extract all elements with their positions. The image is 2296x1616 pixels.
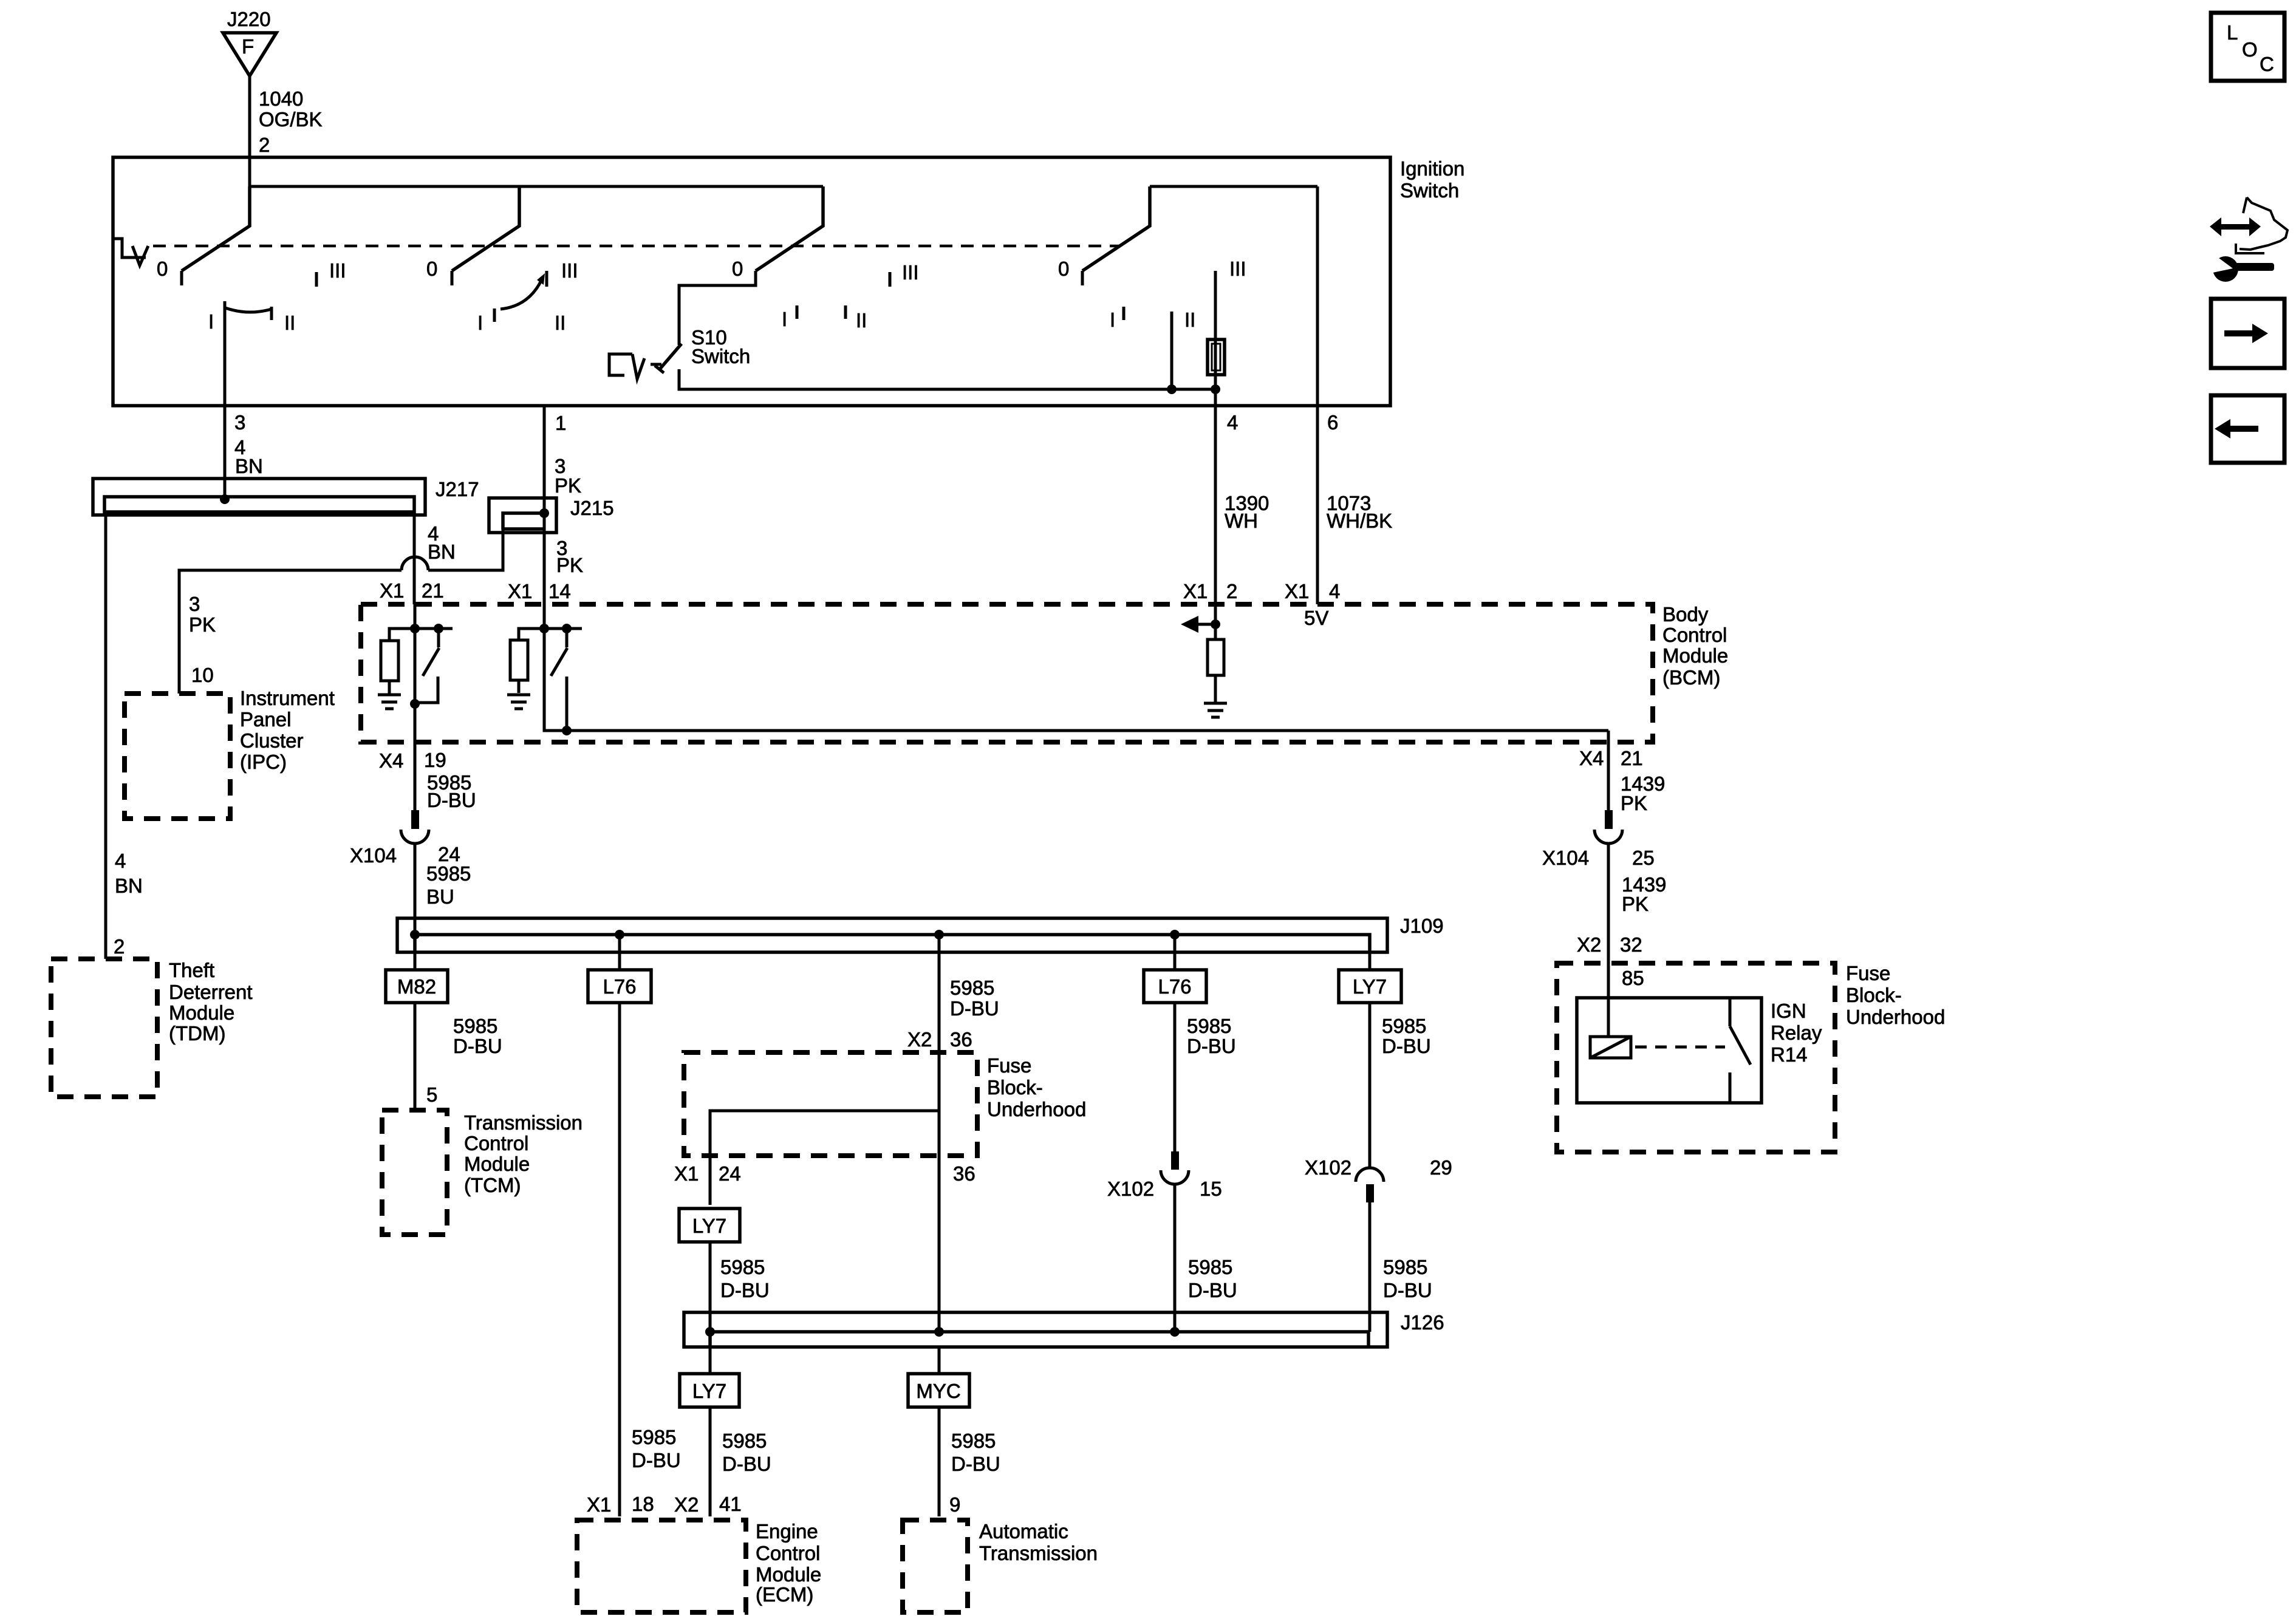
wire J109 to fuse M82 bbox=[414, 935, 417, 970]
junction fuse lead on S10 wire bbox=[1211, 384, 1220, 394]
switch BCM2 bbox=[551, 629, 567, 731]
svg-text:29: 29 bbox=[1430, 1156, 1452, 1179]
svg-text:36: 36 bbox=[950, 1028, 972, 1051]
junction X1-21 top bbox=[410, 624, 420, 633]
svg-text:F: F bbox=[242, 35, 254, 58]
svg-text:0: 0 bbox=[732, 257, 743, 280]
wire J217 to BCM X1-21 4 BN bbox=[414, 512, 456, 604]
svg-text:Underhood: Underhood bbox=[1846, 1006, 1945, 1028]
svg-text:D-BU: D-BU bbox=[1383, 1279, 1432, 1301]
splice J215 bbox=[489, 497, 614, 533]
svg-text:LY7: LY7 bbox=[692, 1380, 726, 1402]
junction J126 c bbox=[1170, 1327, 1180, 1337]
engine control module ECM box bbox=[577, 1520, 821, 1612]
wire LY7b to J126 5985 D-BU bbox=[710, 1242, 770, 1332]
svg-text:Control: Control bbox=[1662, 624, 1727, 646]
splice pack J126 bbox=[684, 1311, 1444, 1347]
svg-text:Panel: Panel bbox=[240, 708, 291, 731]
wire 1040 OG/BK circuit 2 feed bbox=[250, 76, 323, 186]
fuse block underhood box (middle) bbox=[684, 1052, 1086, 1156]
svg-text:5985: 5985 bbox=[1187, 1015, 1231, 1037]
svg-text:X1: X1 bbox=[1183, 580, 1208, 602]
wire L76a to ECM X1-18 5985 D-BU bbox=[620, 1003, 681, 1516]
svg-text:X104: X104 bbox=[1542, 847, 1589, 869]
svg-text:15: 15 bbox=[1200, 1178, 1222, 1200]
svg-text:L76: L76 bbox=[1158, 975, 1191, 998]
svg-text:M82: M82 bbox=[397, 975, 436, 998]
svg-text:R14: R14 bbox=[1771, 1043, 1808, 1066]
svg-text:X1: X1 bbox=[587, 1493, 611, 1516]
fuse L76 a bbox=[588, 970, 651, 1003]
junction switch1 bottom bbox=[410, 699, 420, 709]
wire LY7c to ECM X2-41 5985 D-BU bbox=[710, 1407, 771, 1516]
junction J109 c bbox=[934, 930, 944, 939]
signal direction arrow bbox=[1181, 616, 1215, 633]
svg-text:Transmission: Transmission bbox=[464, 1111, 583, 1134]
svg-text:(TCM): (TCM) bbox=[464, 1174, 521, 1196]
switch S10 blade bbox=[655, 344, 682, 373]
svg-text:19: 19 bbox=[424, 749, 446, 771]
icon adjust hand bbox=[2236, 197, 2287, 253]
svg-text:5985: 5985 bbox=[453, 1015, 497, 1037]
svg-text:III: III bbox=[329, 259, 346, 282]
svg-text:II: II bbox=[1184, 309, 1195, 331]
svg-text:5: 5 bbox=[426, 1083, 437, 1106]
junction X1-2 bbox=[1211, 619, 1220, 629]
svg-text:Control: Control bbox=[756, 1542, 820, 1564]
svg-text:PK: PK bbox=[1622, 893, 1649, 915]
svg-text:85: 85 bbox=[1622, 967, 1644, 989]
BCM input circuit X1-14 wire bbox=[544, 604, 1608, 731]
svg-text:4: 4 bbox=[115, 850, 126, 872]
svg-text:36: 36 bbox=[953, 1162, 975, 1185]
svg-text:D-BU: D-BU bbox=[1187, 1035, 1236, 1057]
wire pin 6 1073 bbox=[1316, 186, 1319, 604]
svg-text:(TDM): (TDM) bbox=[169, 1022, 225, 1045]
switch BCM1 bbox=[415, 629, 439, 703]
svg-text:2: 2 bbox=[259, 134, 270, 156]
svg-text:25: 25 bbox=[1632, 847, 1655, 869]
svg-text:4: 4 bbox=[1227, 411, 1238, 434]
junction J109 d bbox=[1170, 930, 1180, 939]
svg-text:J109: J109 bbox=[1400, 915, 1444, 937]
ground BCM3 bbox=[1204, 703, 1227, 717]
icon back arrow box bbox=[2211, 395, 2284, 463]
fuse block underhood box (relay) bbox=[1557, 962, 1945, 1152]
svg-text:Transmission: Transmission bbox=[979, 1542, 1098, 1564]
svg-text:D-BU: D-BU bbox=[720, 1279, 770, 1301]
mechanical link dashed line bbox=[153, 245, 1121, 248]
mechanical link symbol (lock cylinder) left bbox=[113, 239, 148, 265]
pole 4 switch arm bbox=[1082, 186, 1150, 285]
ignition switch internal bus (poles 1-3) bbox=[250, 185, 823, 188]
svg-text:32: 32 bbox=[1620, 933, 1642, 956]
ignition switch internal bus (pole 4) bbox=[1150, 185, 1317, 188]
icon LOC box bbox=[2211, 13, 2284, 81]
svg-text:L: L bbox=[2227, 21, 2238, 44]
svg-text:L76: L76 bbox=[603, 975, 636, 998]
svg-text:PK: PK bbox=[189, 613, 216, 636]
svg-text:OG/BK: OG/BK bbox=[259, 108, 323, 131]
svg-text:J215: J215 bbox=[570, 497, 614, 519]
svg-text:X104: X104 bbox=[350, 844, 397, 867]
relay coil bbox=[1590, 1037, 1631, 1058]
in-line connector X104 pin 25 bbox=[1542, 810, 1655, 869]
svg-text:III: III bbox=[561, 259, 578, 282]
svg-text:I: I bbox=[208, 310, 214, 333]
svg-text:Automatic: Automatic bbox=[979, 1520, 1068, 1543]
svg-text:PK: PK bbox=[555, 474, 581, 497]
resistor BCM1 bbox=[381, 641, 398, 681]
svg-text:1: 1 bbox=[555, 412, 566, 434]
BCM passlock sense X1-2 wire bbox=[1214, 604, 1217, 639]
fuse block internal wire to X1-24 bbox=[710, 1111, 939, 1205]
junction J126 a bbox=[705, 1327, 715, 1337]
automatic transmission box bbox=[903, 1520, 1098, 1612]
svg-text:Body: Body bbox=[1662, 603, 1709, 626]
svg-text:D-BU: D-BU bbox=[427, 789, 476, 811]
relay switch contacts bbox=[1730, 998, 1751, 1103]
wire J109 to fuse L76 a bbox=[618, 935, 621, 970]
svg-text:6: 6 bbox=[1327, 411, 1338, 434]
S10 output wire to fuse node bbox=[679, 369, 1215, 389]
wire X102-29 to J126 5985 D-BU bbox=[1370, 1202, 1432, 1332]
wire M82 to TCM 5985 D-BU bbox=[415, 1003, 502, 1110]
svg-text:5985: 5985 bbox=[1188, 1256, 1232, 1278]
junction pole4-II on S10 wire bbox=[1167, 384, 1177, 394]
svg-text:X1: X1 bbox=[380, 579, 404, 602]
svg-text:24: 24 bbox=[719, 1162, 741, 1185]
wire BCM X4-19 to X104 5985 D-BU bbox=[379, 742, 476, 811]
svg-text:II: II bbox=[284, 312, 295, 334]
svg-text:2: 2 bbox=[1226, 580, 1237, 602]
svg-text:18: 18 bbox=[632, 1493, 654, 1515]
svg-text:Theft: Theft bbox=[169, 959, 214, 981]
pin 6 labels bbox=[1327, 411, 1392, 532]
wire pin 3 to J217 bbox=[224, 301, 227, 499]
svg-text:5985: 5985 bbox=[632, 1426, 676, 1448]
pin X2 41 labels bbox=[674, 1493, 742, 1516]
svg-text:3: 3 bbox=[234, 411, 245, 434]
svg-text:14: 14 bbox=[548, 580, 571, 602]
svg-text:D-BU: D-BU bbox=[453, 1035, 502, 1057]
svg-text:5V: 5V bbox=[1304, 607, 1328, 629]
wire J109 to fuse LY7 a bbox=[1368, 935, 1372, 970]
svg-text:5985: 5985 bbox=[1382, 1015, 1426, 1037]
svg-text:I: I bbox=[782, 308, 787, 330]
pin X1 14 labels bbox=[508, 580, 571, 602]
ground BCM2 bbox=[507, 695, 530, 709]
wire J215 branch to IPC 3 PK bbox=[179, 514, 583, 694]
wire BCM X4-21 1439 PK bbox=[1579, 731, 1665, 814]
svg-text:D-BU: D-BU bbox=[1382, 1035, 1431, 1057]
svg-text:O: O bbox=[2242, 38, 2258, 61]
pole 2 position labels and contacts bbox=[426, 257, 578, 334]
pin 3 labels 4 BN bbox=[234, 411, 263, 477]
resistor BCM3 bbox=[1208, 639, 1224, 675]
svg-text:J217: J217 bbox=[436, 478, 479, 500]
svg-text:J126: J126 bbox=[1401, 1311, 1444, 1334]
junction on J217 bbox=[220, 494, 230, 504]
in-line connector X102 pin 15 bbox=[1107, 1151, 1222, 1200]
fuse LY7 c bbox=[680, 1374, 739, 1407]
svg-text:X102: X102 bbox=[1107, 1178, 1154, 1200]
fuse M82 bbox=[386, 970, 448, 1003]
svg-text:5985: 5985 bbox=[1383, 1256, 1427, 1278]
pole 4 contact II wire bbox=[1170, 312, 1174, 389]
BCM pull-up resistor 1 branch bbox=[389, 629, 415, 641]
transmission control module TCM box bbox=[382, 1110, 583, 1235]
junction switch2 top bbox=[562, 624, 572, 633]
fuse (ignition switch internal) bbox=[1208, 339, 1225, 375]
svg-text:IGN: IGN bbox=[1771, 1000, 1806, 1022]
junction J109 a bbox=[410, 930, 420, 939]
ground/feed symbol J220 bbox=[223, 8, 276, 76]
svg-text:I: I bbox=[477, 312, 483, 334]
wire LY7a to X102-29 5985 D-BU bbox=[1370, 1003, 1431, 1167]
svg-text:III: III bbox=[1229, 257, 1246, 280]
svg-text:(BCM): (BCM) bbox=[1662, 666, 1720, 689]
svg-text:BN: BN bbox=[428, 540, 456, 563]
svg-text:1040: 1040 bbox=[259, 87, 303, 110]
svg-text:X4: X4 bbox=[1579, 747, 1604, 769]
svg-text:X102: X102 bbox=[1305, 1156, 1351, 1179]
svg-text:III: III bbox=[902, 261, 919, 284]
wire J126 to fuse LY7 c bbox=[709, 1347, 712, 1374]
svg-text:BN: BN bbox=[115, 874, 143, 897]
svg-text:D-BU: D-BU bbox=[1188, 1279, 1237, 1301]
svg-text:Deterrent: Deterrent bbox=[169, 981, 253, 1003]
svg-text:0: 0 bbox=[426, 257, 437, 280]
wire pin 1 3 PK to J215 bbox=[543, 406, 546, 604]
fuse LY7 b bbox=[679, 1209, 740, 1242]
pole 3 contact feed to S10 bbox=[679, 271, 756, 345]
svg-text:Module: Module bbox=[756, 1563, 821, 1586]
fuse L76 b bbox=[1144, 970, 1206, 1003]
svg-text:Fuse: Fuse bbox=[987, 1054, 1031, 1077]
ignition switch box bbox=[113, 157, 1390, 406]
svg-text:I: I bbox=[1110, 309, 1115, 331]
pole 4 position labels and contacts bbox=[1058, 257, 1246, 331]
svg-text:X4: X4 bbox=[379, 749, 403, 772]
svg-text:Control: Control bbox=[464, 1132, 528, 1154]
junction switch1 top bbox=[434, 624, 443, 633]
wire J109 to fuse L76 b bbox=[1174, 935, 1177, 970]
BCM pull-up resistor 2 branch bbox=[519, 629, 544, 640]
svg-text:3: 3 bbox=[189, 593, 200, 615]
resistor BCM2 lead bbox=[518, 680, 521, 693]
pin X1 2 labels bbox=[1183, 580, 1237, 602]
resistor BCM1 lead bbox=[388, 681, 391, 694]
svg-text:5985: 5985 bbox=[950, 977, 994, 999]
svg-text:LY7: LY7 bbox=[1353, 975, 1387, 998]
svg-text:5985: 5985 bbox=[426, 862, 471, 885]
svg-text:21: 21 bbox=[1621, 747, 1643, 769]
resistor BCM2 bbox=[510, 640, 528, 680]
svg-text:D-BU: D-BU bbox=[632, 1449, 681, 1471]
svg-text:Switch: Switch bbox=[691, 345, 750, 367]
svg-text:J220: J220 bbox=[227, 8, 271, 30]
pin 4 labels bbox=[1225, 411, 1269, 532]
svg-text:X1: X1 bbox=[674, 1162, 699, 1185]
junction J109 b bbox=[615, 930, 624, 939]
junction on J215 bbox=[539, 508, 549, 518]
pin X1 21 labels bbox=[380, 579, 444, 602]
svg-text:10: 10 bbox=[191, 664, 214, 686]
wire X104-24 to J109 5985 BU bbox=[415, 844, 471, 935]
svg-text:II: II bbox=[555, 312, 565, 334]
BCM switch 2 branch bbox=[544, 627, 582, 630]
label IGN Relay R14 bbox=[1771, 1000, 1822, 1066]
svg-text:0: 0 bbox=[157, 257, 168, 280]
wire J109 to fuse block X2-36 5985 D-BU bbox=[907, 935, 999, 1332]
pole 1 position labels and contacts bbox=[157, 257, 346, 334]
svg-text:X2: X2 bbox=[1577, 933, 1601, 956]
svg-text:Module: Module bbox=[1662, 644, 1728, 667]
svg-text:PK: PK bbox=[1621, 792, 1647, 814]
in-line connector X102 pin 29 bbox=[1305, 1156, 1452, 1202]
svg-text:5985: 5985 bbox=[720, 1256, 765, 1278]
pole 2 switch arm bbox=[452, 186, 519, 285]
wire L76b to X102-15 5985 D-BU bbox=[1175, 1003, 1236, 1151]
BCM input circuit X1-21 wire bbox=[414, 604, 417, 742]
junction X1-14 top bbox=[539, 624, 549, 633]
svg-text:WH: WH bbox=[1225, 510, 1258, 532]
svg-text:MYC: MYC bbox=[916, 1380, 960, 1402]
svg-text:0: 0 bbox=[1058, 257, 1069, 280]
junction J126 b bbox=[934, 1327, 944, 1337]
pole 1 switch arm bbox=[182, 186, 250, 285]
label S10 Switch bbox=[691, 326, 750, 367]
wire J217 to TDM 4 BN bbox=[106, 512, 143, 959]
icon wrench bbox=[2210, 254, 2274, 282]
fuse MYC bbox=[908, 1374, 969, 1407]
svg-text:4: 4 bbox=[1329, 580, 1340, 602]
svg-text:Module: Module bbox=[169, 1001, 234, 1024]
svg-text:Ignition: Ignition bbox=[1400, 157, 1464, 180]
wire MYC to automatic transmission pin 9 5985 D-BU bbox=[939, 1407, 1000, 1516]
svg-text:5985: 5985 bbox=[722, 1430, 767, 1452]
wire fuse to pin 4 bbox=[1214, 375, 1217, 406]
svg-text:D-BU: D-BU bbox=[722, 1453, 771, 1475]
svg-text:Block-: Block- bbox=[987, 1076, 1043, 1099]
instrument panel cluster IPC box bbox=[125, 687, 335, 819]
svg-text:9: 9 bbox=[949, 1493, 960, 1516]
svg-text:X1: X1 bbox=[1285, 580, 1309, 602]
junction switch2 bottom bbox=[562, 726, 572, 735]
svg-text:Cluster: Cluster bbox=[240, 729, 304, 752]
wire J126 to fuse MYC bbox=[938, 1347, 941, 1374]
svg-text:Engine: Engine bbox=[756, 1520, 818, 1543]
ground BCM1 bbox=[378, 695, 401, 709]
S10 lock cylinder symbol bbox=[609, 354, 661, 379]
svg-text:41: 41 bbox=[719, 1493, 742, 1515]
svg-text:LY7: LY7 bbox=[692, 1215, 726, 1237]
svg-text:Fuse: Fuse bbox=[1846, 962, 1890, 984]
pole 3 position labels and contacts bbox=[732, 257, 919, 332]
svg-text:X1: X1 bbox=[508, 580, 532, 602]
splice pack J217 bbox=[93, 478, 479, 515]
in-line connector X104 pin 24 bbox=[350, 810, 460, 867]
svg-text:(IPC): (IPC) bbox=[240, 751, 287, 773]
pin X1 24 labels bbox=[674, 1162, 741, 1185]
svg-text:5985: 5985 bbox=[951, 1430, 996, 1452]
svg-text:PK: PK bbox=[556, 554, 583, 576]
svg-text:D-BU: D-BU bbox=[951, 1453, 1000, 1475]
splice pack J109 bbox=[397, 915, 1444, 952]
fuse LY7 a bbox=[1339, 970, 1401, 1003]
svg-text:(ECM): (ECM) bbox=[756, 1583, 813, 1606]
label Ignition Switch bbox=[1400, 157, 1464, 202]
svg-text:BN: BN bbox=[235, 455, 263, 477]
svg-text:Switch: Switch bbox=[1400, 179, 1459, 202]
svg-text:Underhood: Underhood bbox=[987, 1098, 1086, 1120]
BCM switch 1 branch bbox=[415, 627, 453, 630]
pin X1 4 labels bbox=[1285, 580, 1340, 602]
wire X102-15 to J126 5985 D-BU bbox=[1175, 1184, 1237, 1332]
wire X104-25 to relay 1439 PK bbox=[1577, 844, 1666, 1037]
svg-text:D-BU: D-BU bbox=[950, 997, 999, 1020]
svg-text:2: 2 bbox=[114, 935, 125, 958]
svg-text:21: 21 bbox=[422, 579, 444, 602]
svg-text:X2: X2 bbox=[674, 1493, 699, 1516]
relay R14 outline bbox=[1577, 998, 1761, 1103]
svg-text:BU: BU bbox=[426, 885, 454, 908]
svg-text:Relay: Relay bbox=[1771, 1021, 1822, 1044]
svg-text:II: II bbox=[856, 309, 867, 332]
pin 1 labels 3 PK bbox=[555, 412, 581, 497]
relay mechanical link bbox=[1635, 1046, 1725, 1049]
pole 4 contact III wire bbox=[1214, 271, 1217, 389]
icon forward arrow box bbox=[2211, 299, 2284, 368]
svg-text:Module: Module bbox=[464, 1153, 530, 1175]
theft deterrent module TDM box bbox=[51, 959, 253, 1097]
pin X1 18 labels bbox=[587, 1493, 654, 1516]
svg-text:Block-: Block- bbox=[1846, 984, 1902, 1006]
svg-text:WH/BK: WH/BK bbox=[1327, 510, 1392, 532]
wire pin 4 1390 WH bbox=[1214, 406, 1217, 604]
svg-text:X2: X2 bbox=[907, 1028, 932, 1051]
svg-text:Instrument: Instrument bbox=[240, 687, 335, 709]
resistor BCM3 lead bbox=[1214, 675, 1217, 702]
pole 3 switch arm bbox=[756, 186, 823, 271]
svg-text:C: C bbox=[2260, 53, 2274, 75]
icon double arrow bbox=[2210, 217, 2261, 236]
body control module BCM box bbox=[361, 603, 1728, 742]
